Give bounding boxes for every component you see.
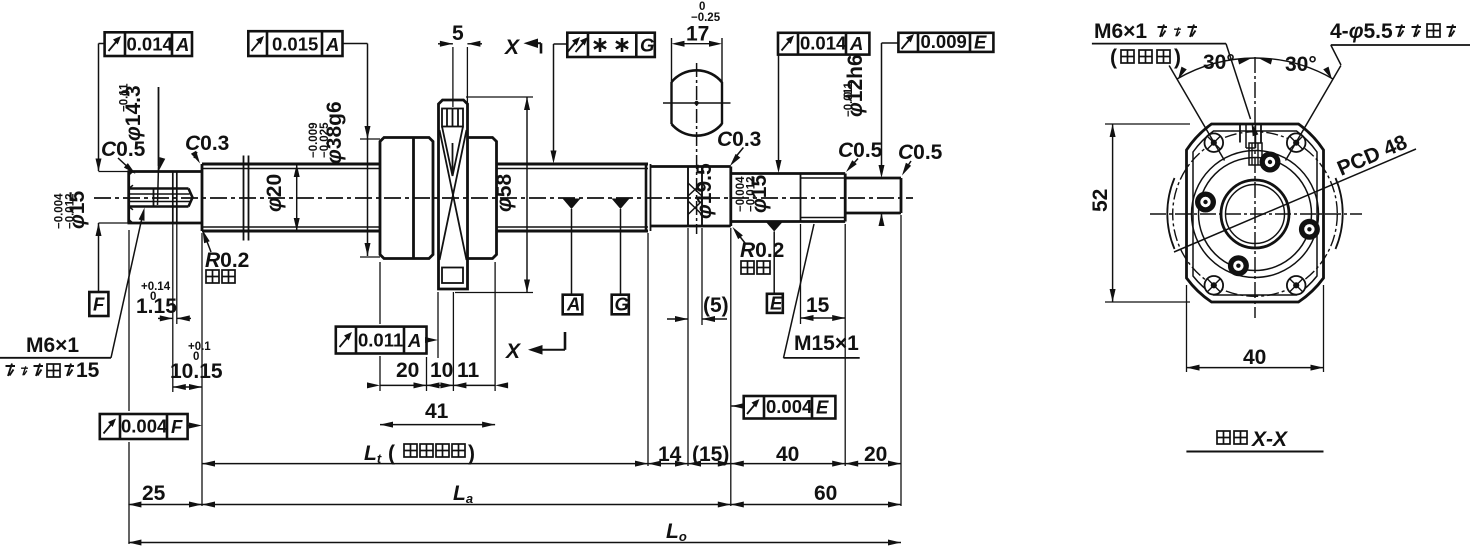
svg-text:M6×1: M6×1 [26, 334, 79, 357]
flange bottom insert [442, 268, 463, 284]
inner chamfer outline [1193, 131, 1317, 295]
svg-text:G: G [615, 294, 629, 315]
svg-text:5: 5 [452, 22, 464, 45]
phi12 lower arrow [881, 213, 883, 225]
svg-text:0.011: 0.011 [358, 330, 403, 351]
right screw section OD and root [497, 164, 649, 231]
4 bolt holes phi5.5 at 30deg [1205, 133, 1306, 294]
FCF3 total runout ** G [567, 33, 655, 57]
svg-text:A: A [407, 330, 421, 351]
flange top insert [442, 109, 463, 177]
PCD 48 label with diagonal [1174, 149, 1416, 252]
svg-text:15: 15 [806, 294, 830, 317]
svg-text:X-X: X-X [1251, 428, 1289, 451]
datum box A with triangle on centerline [563, 295, 583, 315]
label phi20 with dim arrows [263, 174, 286, 212]
svg-text:E: E [770, 293, 783, 314]
FCF6 0.004 E [744, 396, 836, 419]
svg-text:F: F [171, 416, 183, 437]
svg-text:R0.2: R0.2 [205, 249, 249, 272]
section circle with flats (17 across) [663, 38, 731, 234]
left screw section OD and root [202, 164, 380, 231]
relief groove 1.15 [172, 172, 174, 224]
datum box G with triangle on centerline [612, 295, 629, 315]
svg-text:C0.5: C0.5 [101, 138, 146, 161]
label phi15 left with tolerance [66, 191, 89, 229]
FCF4 0.014 A [778, 33, 869, 55]
label phi14.3 with tolerance and dim line [122, 85, 145, 141]
phi19.5 section [651, 167, 731, 227]
svg-text:10: 10 [430, 359, 453, 382]
svg-text:R0.2: R0.2 [740, 239, 784, 262]
label phi15 right with tolerance [748, 175, 771, 213]
datum box F [89, 292, 108, 316]
svg-text:φ58: φ58 [493, 174, 516, 212]
inner rings [1192, 151, 1319, 278]
svg-text:0.004: 0.004 [766, 396, 813, 417]
svg-text:(5): (5) [703, 294, 729, 317]
FCF8 0.011 A [336, 327, 427, 354]
M15 thread [800, 174, 802, 222]
svg-text:+0.1: +0.1 [188, 341, 211, 353]
body circle arcs poking beyond flats [1167, 178, 1174, 249]
svg-text:A: A [325, 34, 339, 55]
nut flange (phi58, crossed) [439, 100, 468, 289]
svg-text:20: 20 [396, 359, 419, 382]
thread start lines [243, 156, 245, 241]
svg-text:C0.5: C0.5 [898, 141, 943, 164]
svg-text:−0.012: −0.012 [746, 177, 758, 213]
svg-text:): ) [1174, 46, 1181, 69]
flange face extension for FCF8 [437, 292, 439, 358]
phi12h6 end [845, 178, 901, 213]
svg-text:0.014: 0.014 [127, 34, 174, 55]
svg-text:60: 60 [814, 482, 837, 505]
svg-text:C0.3: C0.3 [717, 128, 761, 151]
svg-text:C0.3: C0.3 [185, 132, 229, 155]
phi38g6 dim line (shared with FCF2 leader) [367, 44, 369, 257]
M6 tap hole in left end [129, 189, 193, 207]
FCF7 0.004 F [100, 414, 188, 439]
phi58 dimension [466, 96, 533, 98]
wrench flats with X marks [688, 167, 702, 227]
svg-text:52: 52 [1089, 189, 1112, 212]
dim 17 with tol [677, 43, 717, 45]
bottom dimension chain line 1: Lt 14 (15) 40 20 [201, 233, 203, 506]
nut body right part [468, 138, 497, 259]
svg-text:C0.5: C0.5 [838, 139, 883, 162]
svg-text:0.004: 0.004 [121, 416, 168, 437]
svg-text:17: 17 [686, 23, 709, 46]
svg-text:A: A [566, 294, 580, 315]
30deg arcs with arrows [1177, 58, 1255, 79]
svg-text:40: 40 [1243, 346, 1266, 369]
thread end lines [645, 164, 648, 231]
centerlines [1150, 213, 1362, 215]
FCF2 0.015 A [248, 31, 342, 56]
4 deflector plugs [1195, 152, 1320, 277]
svg-text:15: 15 [76, 359, 100, 382]
bottom dimension chain line 2: 25 La 60 [128, 230, 130, 411]
dim 5 (top of nut) [452, 47, 454, 107]
dim 52 [1105, 123, 1190, 125]
shoulder to screw [201, 164, 204, 231]
bottom dimension line 3: Lo [128, 542, 901, 544]
svg-text:−0.025: −0.025 [319, 122, 331, 158]
title 矢視X-X [1217, 431, 1230, 444]
svg-text:10.15: 10.15 [170, 360, 223, 383]
30deg radial lines [1169, 66, 1224, 161]
svg-text:G: G [640, 35, 654, 56]
svg-text:(15): (15) [692, 443, 729, 466]
svg-text:(: ( [388, 442, 395, 465]
datum box E with triangle on journal [767, 294, 783, 313]
svg-text:0.009: 0.009 [921, 31, 967, 52]
svg-text:−0.011: −0.011 [843, 82, 855, 117]
flange X cross [440, 130, 467, 260]
svg-text:1.15: 1.15 [136, 295, 177, 318]
label phi19.5 [693, 163, 716, 219]
svg-text:φ19.5: φ19.5 [693, 163, 716, 219]
svg-text:0.015: 0.015 [272, 34, 318, 55]
svg-text:F: F [93, 294, 105, 315]
svg-text:(: ( [1110, 46, 1117, 69]
svg-text:25: 25 [142, 482, 166, 505]
svg-text:φ20: φ20 [263, 174, 286, 212]
svg-text:0.014: 0.014 [800, 33, 847, 54]
svg-text:A: A [849, 33, 863, 54]
nut body left part [380, 138, 433, 259]
phi38g6 edge extensions [360, 138, 380, 140]
label phi38g6 with tolerance [323, 101, 346, 164]
flange outline [1187, 124, 1324, 302]
svg-text:4-φ5.5: 4-φ5.5 [1330, 20, 1393, 43]
svg-text:−0.25: −0.25 [691, 12, 721, 24]
FCF5 0.009 E [898, 33, 993, 52]
svg-text:): ) [468, 442, 475, 465]
left journal phi15 outline [99, 172, 203, 224]
main centerline [94, 197, 913, 199]
svg-text:30°: 30° [1285, 53, 1317, 76]
svg-text:E: E [974, 32, 987, 53]
svg-text:41: 41 [425, 400, 449, 423]
label phi12h6 with tolerance [844, 54, 867, 117]
svg-text:−0.012: −0.012 [65, 194, 77, 230]
svg-text:14: 14 [658, 443, 682, 466]
M6 tap slot at top [1240, 124, 1262, 165]
svg-text:11: 11 [457, 359, 480, 382]
svg-text:A: A [175, 34, 189, 55]
svg-text:X: X [504, 36, 521, 59]
svg-text:20: 20 [864, 443, 887, 466]
PCD48 dash-dot circle [1173, 132, 1338, 297]
svg-text:M15×1: M15×1 [794, 332, 859, 355]
svg-text:M6×1: M6×1 [1094, 20, 1147, 43]
svg-text:−0.11: −0.11 [119, 83, 131, 112]
dim 40 [1186, 285, 1188, 372]
svg-text:X: X [505, 340, 522, 363]
svg-text:40: 40 [776, 443, 799, 466]
right journal phi15 [731, 174, 845, 222]
FCF1 0.014 A [105, 32, 192, 56]
svg-text:E: E [816, 397, 829, 418]
